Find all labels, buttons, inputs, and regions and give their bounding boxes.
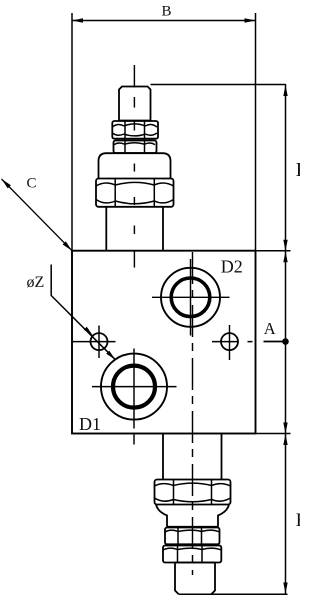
lock nut upper	[112, 121, 158, 139]
leader C	[2, 179, 73, 251]
cartridge centerline	[133, 65, 135, 88]
port D1 outer circle	[101, 354, 167, 420]
svg-text:F: F	[296, 510, 300, 531]
bottom hex nut	[155, 480, 231, 505]
svg-text:D2: D2	[221, 257, 243, 277]
manifold block outline	[72, 251, 256, 434]
bottom extension line	[179, 593, 288, 595]
svg-text:øZ: øZ	[27, 274, 45, 291]
extension line right (B)	[255, 13, 257, 251]
port D2 outer circle	[161, 268, 220, 327]
leader A with dot	[264, 341, 286, 343]
port D1 inner ring	[113, 366, 155, 408]
port D1 crosshair	[92, 349, 177, 445]
extension line left (B)	[71, 13, 73, 251]
dimension line B	[72, 20, 256, 22]
mounting hole left (øZ)	[91, 333, 108, 350]
jam nut lower	[114, 141, 157, 154]
stem jam nut 1	[165, 528, 220, 545]
right stacked dimension line	[285, 84, 287, 594]
block/stem centerline	[192, 252, 194, 575]
mounting hole right	[221, 333, 238, 350]
valve cap bell	[99, 153, 171, 178]
block top edge extension	[256, 250, 291, 252]
adjustment screw cylinder	[119, 87, 151, 121]
svg-text:C: C	[27, 176, 37, 192]
cartridge threaded body	[106, 207, 163, 251]
svg-text:B: B	[162, 4, 172, 20]
svg-text:A: A	[264, 319, 276, 338]
block bottom edge extension	[256, 433, 291, 435]
port D2 inner ring	[171, 278, 210, 317]
svg-text:E: E	[296, 159, 300, 181]
stem jam nut 2	[163, 546, 221, 563]
bottom cylinder	[175, 563, 215, 595]
bottom stem body	[163, 434, 222, 480]
leader from screw top to right dimension line	[151, 84, 286, 86]
svg-text:D1: D1	[79, 414, 101, 434]
conical skirt	[156, 505, 229, 527]
leader øZ	[51, 265, 115, 360]
cartridge hex nut	[96, 179, 174, 207]
port D2 crosshair	[152, 259, 230, 336]
